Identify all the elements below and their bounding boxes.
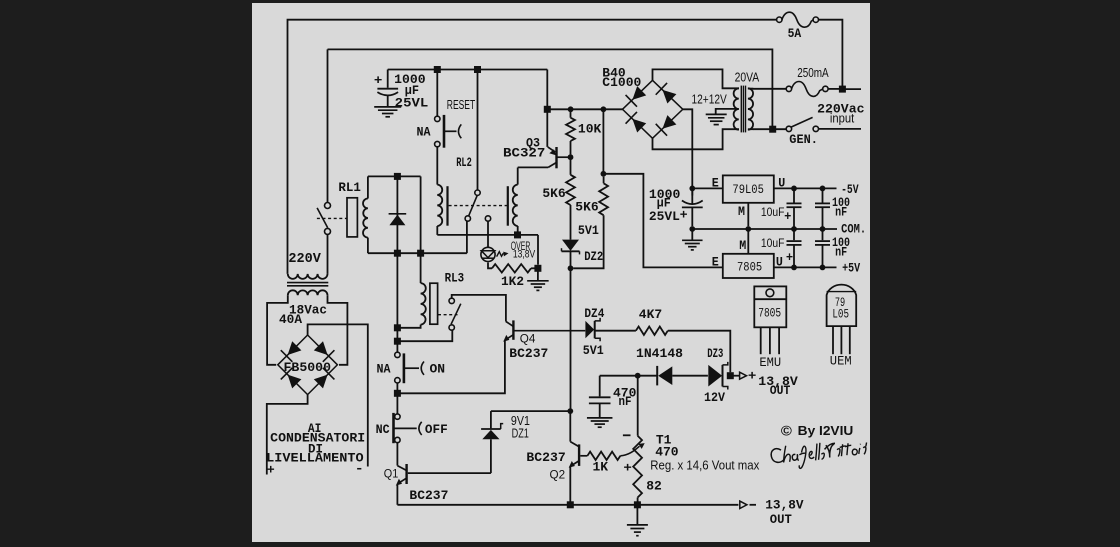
svg-text:4K7: 4K7 (639, 307, 662, 322)
junction +5V cap2 (820, 265, 826, 271)
relay RL2 changeover contact (475, 190, 480, 195)
svg-text:250mA: 250mA (797, 65, 829, 80)
svg-text:input: input (830, 111, 855, 126)
svg-text:13,8V: 13,8V (765, 498, 803, 513)
transistor Q3 BC327 (546, 109, 548, 147)
svg-text:5K6: 5K6 (542, 186, 565, 201)
trimmer T1 470 element (637, 376, 639, 436)
regulator U2 7805 box (723, 254, 774, 278)
wire coil bottom to ground node (537, 235, 539, 265)
wire fuse F1 to 220Vac junction (818, 20, 842, 89)
svg-text:DZ2: DZ2 (584, 249, 603, 264)
svg-text:RL1: RL1 (338, 180, 361, 195)
svg-text:10uF: 10uF (761, 205, 785, 219)
svg-text:220V: 220V (288, 251, 321, 267)
bridge rectifier B40 C1000 body (623, 80, 683, 138)
svg-text:NA: NA (377, 361, 391, 376)
svg-text:©: © (781, 423, 793, 439)
wire T1 secondary right to bridge FB5000 right corner (328, 295, 348, 365)
bridge FB5000 diode lower-right (314, 375, 328, 389)
switch GEN. (753, 128, 786, 130)
wire ON to OFF (396, 383, 398, 414)
relay RL3 body (430, 283, 438, 324)
junction C2 bottom / COM start (689, 226, 695, 232)
transistor Q4 BC237 (506, 322, 513, 327)
svg-text:5V1: 5V1 (578, 223, 599, 238)
relay RL2 coil A core (446, 186, 448, 226)
LED OVER 13,8V (481, 247, 495, 261)
wire control vertical (node A down) (396, 253, 398, 352)
capacitor C6 10uF (bottom) (793, 229, 795, 240)
wire 79L05 M pin (747, 203, 749, 226)
bridge B40 diode lower-left (632, 119, 646, 133)
junction Q2 collector node (567, 408, 573, 414)
ground center tap 12+12V (716, 109, 739, 114)
capacitor C3 470nF (599, 376, 601, 397)
package 79L05 TO-92 (827, 285, 857, 326)
transformer T2 secondary winding (734, 88, 739, 129)
junction C2 top (689, 186, 695, 192)
bridge B40 diode upper-right (663, 90, 677, 104)
junction DZ2 bottom node (568, 265, 574, 271)
wire positive rail (bridge left corner) (547, 108, 622, 110)
junction -5V cap1 (791, 186, 797, 192)
relay RL2 coil A (436, 147, 438, 185)
svg-text:BC327: BC327 (503, 146, 545, 161)
ground below C2 (682, 239, 703, 241)
wire B40 top corner to transformer secondary top (653, 69, 740, 88)
svg-text:E: E (712, 255, 719, 270)
capacitor C1 1000uF 25VL (387, 70, 389, 88)
svg-text:25VL: 25VL (395, 95, 429, 110)
wire control rail to emitter node (546, 70, 548, 110)
junction RL3 NO return (394, 338, 401, 345)
svg-text:1K2: 1K2 (501, 274, 524, 289)
svg-text:79L05: 79L05 (732, 182, 764, 197)
trimmer T1 wiper (620, 446, 639, 456)
wire B40 bottom corner to transformer secondary bottom (653, 129, 740, 149)
svg-text:ON: ON (430, 362, 446, 377)
svg-text:20VA: 20VA (735, 70, 760, 85)
svg-text:25VL: 25VL (649, 209, 680, 224)
svg-text:7805: 7805 (737, 260, 762, 275)
transformer T1 secondary winding 18Vac (288, 290, 328, 295)
svg-text:C1000: C1000 (602, 75, 641, 90)
wire RL3 contact to Q4 collector (452, 295, 506, 322)
transformer T2 primary winding (748, 88, 753, 129)
wire RL2 coils bottom (437, 234, 538, 236)
svg-text:-: - (355, 461, 364, 476)
regulator U1 79L05 box (723, 175, 774, 202)
junction Q2 emitter bottom (567, 501, 574, 508)
svg-text:BC237: BC237 (409, 488, 448, 503)
zener DZ3 12V (708, 365, 722, 387)
bridge FB5000 diode upper-left (288, 341, 302, 355)
resistor R7 5K6 (right) (602, 109, 604, 171)
relay RL3 contact (449, 298, 454, 303)
junction 82 to ground rail (634, 501, 641, 508)
svg-text:OFF: OFF (425, 422, 448, 437)
svg-text:E: E (712, 175, 719, 190)
svg-text:+: + (786, 249, 793, 264)
wire 7805 M pin (747, 229, 749, 254)
svg-text:BC237: BC237 (526, 450, 565, 465)
junction COM cap1 (791, 226, 797, 232)
zener DZ2 5V1 (562, 240, 579, 251)
relay RL1 coil (367, 176, 369, 198)
junction ground node (1K2) (534, 265, 541, 272)
svg-text:+: + (680, 207, 688, 222)
bridge B40 diode upper-left (632, 86, 646, 100)
wire node A horizontal (relay supply) (368, 252, 467, 254)
svg-text:82: 82 (646, 478, 662, 493)
wire top control rail (388, 69, 548, 71)
zener DZ1 9V1 (490, 411, 492, 428)
svg-text:12+12V: 12+12V (692, 92, 728, 107)
capacitor C5 100nF (top) (822, 188, 824, 202)
svg-text:By I2VIU: By I2VIU (798, 423, 854, 438)
svg-text:1N4148: 1N4148 (636, 346, 683, 361)
svg-text:BC237: BC237 (509, 346, 548, 361)
svg-text:5K6: 5K6 (575, 200, 598, 215)
svg-text:40A: 40A (279, 312, 302, 327)
svg-text:+5V: +5V (842, 260, 860, 275)
svg-text:RL2: RL2 (456, 155, 472, 170)
wire mains line L1 (220V top rail to fuse and left side down to transformer) (288, 20, 777, 274)
svg-text:DZ3: DZ3 (707, 346, 723, 361)
svg-text:+: + (374, 73, 383, 88)
svg-text:10uF: 10uF (761, 236, 785, 250)
bridge FB5000 diode upper-right (314, 341, 328, 355)
svg-text:12V: 12V (704, 390, 725, 405)
svg-text:NA: NA (417, 124, 431, 139)
junction T1 top (635, 373, 641, 379)
ground below C3 (587, 417, 613, 419)
terminal plus 13,8V OUT (730, 375, 739, 377)
wire C2 to ground (691, 229, 693, 240)
wire to 220Vac input terminal (842, 88, 861, 90)
diode D2 1N4148 (656, 366, 658, 386)
svg-text:+: + (784, 208, 791, 223)
wire bridge FB5000 bottom corner to plus lead (267, 395, 308, 475)
svg-text:Q4: Q4 (520, 331, 536, 345)
svg-text:1K: 1K (593, 459, 609, 474)
wire 79L05 U to -5V (774, 187, 837, 189)
package 7805 TO-220 (754, 286, 786, 327)
wire bridge FB5000 top corner to minus lead (308, 324, 368, 466)
wire RL3 NO contact down (397, 330, 452, 341)
svg-text:10K: 10K (578, 121, 602, 136)
svg-text:DZ4: DZ4 (584, 306, 604, 321)
capacitor C2 1000uF 25VL (691, 188, 693, 203)
resistor R2 1K2 (492, 264, 531, 272)
wire 13,8V sense rail (600, 375, 657, 377)
svg-text:+: + (267, 463, 275, 478)
svg-text:+: + (623, 461, 632, 476)
junction RL2 coil B bottom (514, 231, 521, 238)
wire T2 primary top to fuse 250mA (748, 88, 753, 90)
junction diode bottom (394, 250, 401, 257)
wire LED to R2 (488, 262, 492, 268)
svg-text:M: M (738, 204, 745, 219)
terminal minus 13,8V OUT (740, 501, 747, 508)
junction GEN wire / mains L2 (769, 126, 776, 133)
svg-text:nF: nF (835, 245, 847, 260)
wire RL1 loop right branch (420, 176, 422, 253)
resistor R4 4K7 (595, 330, 636, 332)
ground below 1K2 (537, 268, 539, 280)
wire bottom rail (397, 504, 738, 506)
wire B40 right corner down to regulators (683, 109, 693, 195)
svg-text:M: M (739, 238, 746, 253)
wire C2 node to 79L05 E (692, 187, 723, 189)
svg-text:5A: 5A (788, 26, 802, 41)
svg-text:Reg. x 14,6 Vout max: Reg. x 14,6 Vout max (650, 457, 759, 472)
junction RL3 feed (417, 250, 424, 257)
junction 10K top (568, 106, 574, 112)
wire L2 to RL1 contact (327, 49, 329, 202)
junction Q3 emitter feed (544, 106, 551, 113)
junction -5V cap2 (820, 186, 826, 192)
transistor Q1 BC237 (396, 443, 398, 466)
signature Chapella Vittorio (771, 443, 826, 471)
svg-text:DZ1: DZ1 (512, 425, 529, 440)
relay contact RL1 (switch in mains) (325, 203, 331, 209)
transformer T2 core (740, 86, 742, 133)
relay RL2 coil B core (507, 186, 509, 226)
junction COM cap2 (820, 226, 826, 232)
junction RL3 coil return (394, 324, 401, 331)
svg-text:FB5000: FB5000 (284, 360, 332, 375)
junction 5K6b top (601, 106, 607, 112)
wire RL1 loop top (368, 175, 421, 177)
diode D5 across RL1 coil (396, 176, 398, 253)
relay RL2 actuator dashed line (449, 205, 507, 207)
svg-text:Q1: Q1 (384, 467, 399, 481)
relay RL1 body (347, 198, 357, 237)
wire sense to 7805 input (603, 174, 722, 268)
junction RESET branch (434, 66, 441, 73)
zener DZ4 5V1 (585, 321, 594, 338)
pushbutton RESET (NA) (435, 116, 440, 121)
fuse F2 250mA (753, 88, 786, 90)
junction +5V cap1 (791, 265, 797, 271)
capacitor C4 10uF (top) (793, 188, 795, 202)
svg-text:+: + (748, 368, 757, 383)
wire T1 secondary left to bridge FB5000 left corner (267, 295, 288, 365)
svg-text:nF: nF (835, 204, 847, 219)
svg-text:NC: NC (376, 422, 390, 437)
transistor Q2 BC237 (569, 411, 571, 442)
wire 7805 U to +5V (774, 266, 837, 268)
junction diode top (394, 173, 401, 180)
svg-text:GEN.: GEN. (789, 132, 818, 147)
capacitor C7 100nF (bottom) (822, 229, 824, 240)
junction plus output node (727, 372, 734, 379)
transformer T1 core (287, 282, 328, 284)
svg-text:7805: 7805 (758, 305, 781, 320)
resistor R6 5K6 (left) (570, 160, 572, 175)
fuse F1 5A (777, 17, 782, 22)
relay RL2 coil B (517, 168, 519, 185)
resistor R5 10K (570, 109, 572, 117)
svg-text:UEM: UEM (830, 354, 852, 369)
wire DZ1 to Q2 collector node (491, 410, 568, 412)
pushbutton ON (NA) (395, 352, 400, 357)
transformer T1 primary winding 220V (288, 274, 328, 279)
wire mains line L2 (inner rail down right side) (328, 49, 773, 129)
wire RL2 NO contact to LED (487, 221, 489, 247)
bridge B40 diode lower-right (663, 115, 677, 129)
junction COM M (745, 226, 751, 232)
junction RL2 common branch (474, 66, 481, 73)
resistor R3 1K (587, 452, 620, 460)
pushbutton OFF (NC) (395, 414, 400, 419)
junction 220Vac input node (839, 86, 846, 93)
svg-text:nF: nF (619, 394, 632, 409)
svg-text:RL3: RL3 (445, 270, 465, 285)
bridge rectifier FB5000 body (278, 335, 338, 395)
junction Q3 base node (568, 154, 574, 160)
svg-text:RESET: RESET (447, 97, 475, 112)
junction Q4 emitter return (394, 390, 401, 397)
ground below C1 (374, 106, 401, 108)
wire DZ2 node down to Q2 (570, 268, 572, 411)
svg-text:13,8V: 13,8V (513, 248, 536, 260)
relay RL3 coil (420, 253, 422, 283)
wire T2 primary bottom to GEN (748, 128, 753, 130)
svg-text:OUT: OUT (770, 512, 792, 527)
svg-text:L05: L05 (832, 306, 849, 321)
svg-text:OUT: OUT (770, 383, 791, 398)
bridge FB5000 diode lower-left (288, 375, 302, 389)
junction 1000uF sense (601, 171, 607, 177)
svg-text:Q2: Q2 (550, 467, 566, 481)
label minus (wiper) (623, 434, 631, 436)
wire rail to RESET (436, 70, 438, 117)
wire up to RL2 NC contact (466, 221, 468, 253)
wire rail to RL2 common (477, 70, 479, 191)
wire COM rail (692, 228, 837, 230)
svg-text:5V1: 5V1 (583, 343, 604, 358)
ground below 82 (636, 505, 638, 524)
svg-text:LIVELLAMENTO: LIVELLAMENTO (266, 451, 364, 466)
svg-text:EMU: EMU (759, 355, 781, 370)
